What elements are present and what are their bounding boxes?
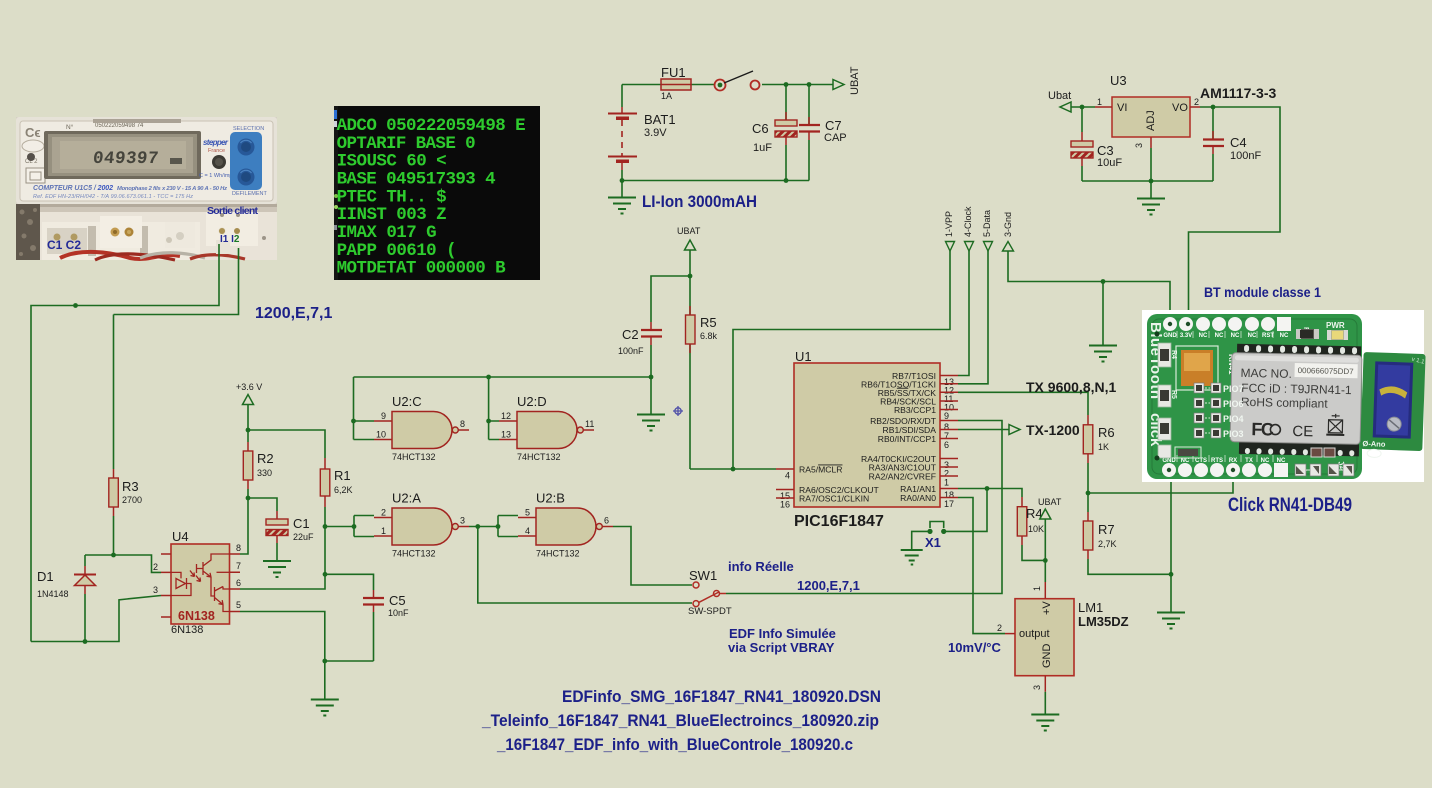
svg-text:GND: GND (1162, 458, 1176, 464)
resistor R3 2700 (109, 315, 142, 556)
svg-text:U2:C: U2:C (392, 394, 422, 409)
power terminal Ubat (left arrow) (1048, 90, 1095, 112)
svg-text:2,7K: 2,7K (1098, 539, 1117, 549)
svg-text:1uF: 1uF (753, 142, 772, 154)
svg-text:3: 3 (1134, 143, 1144, 148)
svg-text:11: 11 (585, 419, 594, 429)
ground under X1 (901, 550, 923, 565)
svg-text:RA5/MCLR: RA5/MCLR (799, 465, 842, 475)
svg-text:NC: NC (1261, 458, 1270, 464)
svg-text:NC: NC (1280, 333, 1289, 339)
svg-text:NC: NC (1181, 458, 1190, 464)
wire R1 node down to U4 pin6 and C5 (240, 527, 325, 590)
svg-text:MOTDETAT 000000 B: MOTDETAT 000000 B (337, 259, 506, 279)
svg-text:1: 1 (381, 526, 386, 536)
svg-text:6,2K: 6,2K (334, 485, 353, 495)
svg-text:R7: R7 (1098, 522, 1115, 537)
ground under module GND (1157, 613, 1185, 629)
fuse FU1 (661, 65, 691, 101)
wire D1 bottom rail to U4 pin3 (31, 596, 161, 642)
wire pin8 to SW1 common (726, 421, 1002, 594)
capacitor C5 10nF (325, 574, 409, 661)
wire battery bottom rail (622, 180, 809, 182)
ground under C1 (263, 561, 291, 577)
svg-text:1200,E,7,1: 1200,E,7,1 (255, 305, 333, 322)
svg-text:U3: U3 (1110, 73, 1127, 88)
svg-text:2: 2 (381, 508, 386, 518)
svg-text:GND: GND (1041, 644, 1053, 669)
junction dot C5 bottom (322, 659, 327, 664)
svg-text:6.8k: 6.8k (700, 331, 718, 341)
svg-text:1200,E,7,1: 1200,E,7,1 (797, 578, 860, 593)
svg-text:UBAT: UBAT (849, 66, 861, 95)
programming header terminal 1-VPP (944, 211, 955, 251)
svg-text:Ø-Ano: Ø-Ano (1362, 439, 1386, 449)
svg-text:U2:B: U2:B (536, 491, 565, 506)
svg-text:1A: 1A (661, 91, 672, 101)
junction dots R5/C2 (649, 274, 693, 380)
svg-text:1: 1 (1097, 97, 1102, 107)
resistor R5 6.8k (686, 276, 718, 469)
capacitor C2 100nF (618, 276, 690, 377)
svg-text:10mV/°C: 10mV/°C (948, 640, 1002, 655)
svg-text:CE: CE (1292, 423, 1313, 440)
svg-text:N°: N° (66, 123, 74, 131)
junction dots U2 outputs (475, 524, 500, 529)
capacitor C3 10uF (1071, 107, 1122, 181)
svg-text:17: 17 (944, 499, 954, 509)
svg-text:stepper: stepper (203, 138, 229, 147)
wire R6 bottom to module RX (1088, 481, 1233, 493)
svg-text:4: 4 (785, 471, 790, 481)
svg-text:COMPTEUR U1C5 / 2002: COMPTEUR U1C5 / 2002 (33, 185, 113, 192)
svg-text:output: output (1019, 628, 1050, 640)
svg-text:SELECTION: SELECTION (233, 126, 264, 132)
svg-text:R5: R5 (1170, 390, 1177, 399)
svg-text:SW-SPDT: SW-SPDT (688, 606, 732, 617)
microcontroller U1 PIC16F1847 (776, 349, 958, 530)
svg-text:TX-1200: TX-1200 (1026, 422, 1080, 438)
svg-text:LM35DZ: LM35DZ (1078, 614, 1129, 629)
svg-text:BT module classe 1: BT module classe 1 (1204, 284, 1321, 300)
wire pin17 to LM1 output (958, 498, 1005, 634)
wire pin18 to R4 top (958, 489, 1022, 498)
svg-text:R2: R2 (257, 451, 274, 466)
svg-text:74HCT132: 74HCT132 (517, 452, 561, 462)
svg-text:8: 8 (460, 419, 465, 429)
svg-text:Ubat: Ubat (1048, 90, 1071, 102)
svg-text:VO: VO (1172, 102, 1188, 114)
svg-text:100nF: 100nF (618, 346, 644, 356)
svg-text:CTS: CTS (1195, 458, 1207, 464)
ground under C2 (637, 377, 665, 431)
optocoupler U4 6N138 (153, 529, 241, 636)
svg-text:3.3V: 3.3V (1180, 333, 1192, 339)
wire U2:A out down to SW1 lower throw (478, 527, 692, 604)
wire meter I2 to R3 (114, 260, 239, 315)
junction dot pin18 net (985, 486, 990, 491)
temperature sensor LM1 LM35DZ (997, 582, 1129, 692)
ground under U3 (1137, 181, 1165, 215)
regulator U3 AM1117-3-3 (1095, 73, 1276, 148)
svg-text:74HCT132: 74HCT132 (392, 452, 436, 462)
svg-text:UBAT: UBAT (1038, 497, 1062, 507)
svg-text:via Script VBRAY: via Script VBRAY (728, 640, 835, 655)
svg-text:Sortie client: Sortie client (207, 205, 259, 217)
svg-text:info Réelle: info Réelle (728, 559, 794, 574)
svg-text:100nF: 100nF (1230, 150, 1261, 162)
svg-text:NC: NC (1248, 333, 1257, 339)
origin marker (673, 406, 683, 416)
svg-text:UBAT: UBAT (677, 226, 701, 236)
svg-text:000666075DD7: 000666075DD7 (1298, 366, 1355, 376)
svg-text:RB0/INT/CCP1: RB0/INT/CCP1 (878, 434, 936, 444)
svg-text:PWR: PWR (1326, 321, 1345, 330)
svg-text:1: 1 (944, 478, 949, 488)
NAND gate U2:D (499, 394, 594, 462)
svg-text:NC: NC (1199, 333, 1208, 339)
svg-text:RST: RST (1262, 333, 1274, 339)
svg-text:3: 3 (153, 585, 158, 595)
power terminal UBAT (right arrow) (833, 66, 861, 95)
power terminal UBAT (up arrow) above R5 (677, 226, 701, 276)
wire 1-VPP to pin4 net (733, 251, 950, 469)
programming header terminal 4-Clock (963, 206, 974, 251)
resistor R7 2,7K (1083, 493, 1171, 574)
svg-text:3: 3 (460, 516, 465, 526)
svg-text:5: 5 (236, 600, 241, 610)
wire 4-Clock to pin13 (958, 251, 969, 376)
resistor R6 1K (1083, 415, 1114, 493)
svg-text:LI-Ion 3000mAH: LI-Ion 3000mAH (642, 193, 757, 211)
svg-text:9: 9 (381, 411, 386, 421)
svg-text:SW1: SW1 (689, 568, 717, 583)
svg-text:2: 2 (1194, 97, 1199, 107)
svg-text:TX 9600,8,N,1: TX 9600,8,N,1 (1026, 379, 1116, 395)
svg-text:R1: R1 (334, 468, 351, 483)
svg-text:PIC16F1847: PIC16F1847 (794, 513, 884, 530)
svg-text:_Teleinfo_16F1847_RN41_BlueEle: _Teleinfo_16F1847_RN41_BlueElectroincs_1… (481, 711, 879, 730)
svg-text:VI: VI (1117, 102, 1127, 114)
wire meter I1 to bottom rail (31, 260, 219, 642)
capacitor C7 CAP (799, 85, 847, 181)
svg-text:D1: D1 (37, 569, 54, 584)
svg-text:EDF Info Simulée: EDF Info Simulée (729, 626, 836, 641)
junction dots U3 (1080, 105, 1216, 184)
svg-text:Click RN41-DB49: Click RN41-DB49 (1228, 495, 1352, 516)
svg-text:C = 1 Wh/imp: C = 1 Wh/imp (199, 173, 232, 179)
svg-text:U2:A: U2:A (392, 491, 421, 506)
svg-text:6: 6 (236, 578, 241, 588)
svg-text:BAT1: BAT1 (644, 112, 676, 127)
svg-text:PIO6: PIO6 (1223, 399, 1244, 409)
svg-text:DEFILEMENT: DEFILEMENT (232, 191, 267, 197)
svg-text:3: 3 (1032, 685, 1042, 690)
svg-text:8: 8 (236, 543, 241, 553)
svg-text:5: 5 (525, 508, 530, 518)
svg-text:RA2/AN2/CVREF: RA2/AN2/CVREF (869, 472, 936, 482)
wire R3 node to D1 and U4 pin2 (85, 555, 161, 572)
svg-text:2700: 2700 (122, 495, 142, 505)
svg-text:5-Data: 5-Data (982, 210, 992, 237)
svg-text:7: 7 (236, 561, 241, 571)
svg-text:3.9V: 3.9V (644, 127, 667, 139)
svg-text:1-VPP: 1-VPP (944, 211, 954, 237)
wire R1 bottom to U2:A inputs (325, 516, 374, 537)
svg-text:13: 13 (501, 430, 511, 440)
wire U2:A out to U2:B inputs (469, 516, 518, 537)
svg-text:GND: GND (1163, 333, 1177, 339)
capacitor C1 22uF (248, 498, 314, 561)
svg-text:10nF: 10nF (388, 608, 409, 618)
svg-text:1K: 1K (1098, 442, 1109, 452)
wire pin7 to TX-1200 terminal (958, 429, 1009, 431)
diode D1 1N4148 (37, 555, 96, 642)
svg-text:22uF: 22uF (293, 532, 314, 542)
junction dots R6/R7 (1086, 491, 1174, 577)
battery BAT1 3.9V (608, 85, 676, 181)
wire U3 ground rail (1082, 148, 1213, 181)
svg-text:+V: +V (1041, 601, 1053, 615)
resistor R1 6,2K (320, 458, 352, 527)
svg-text:6: 6 (604, 516, 609, 526)
svg-text:10: 10 (376, 430, 386, 440)
svg-text:4: 4 (525, 526, 530, 536)
svg-text:MAC NO.: MAC NO. (1240, 366, 1292, 381)
svg-text:RA0/AN0: RA0/AN0 (900, 493, 936, 503)
junction dot R4/UBAT/LM1 (1043, 558, 1048, 563)
svg-text:2: 2 (997, 623, 1002, 633)
svg-text:Ref. EDF HN-23/RH/042 - T/A 99: Ref. EDF HN-23/RH/042 - T/A 99.06.673.06… (33, 194, 193, 200)
terminal TX-1200 (right arrow) (1009, 422, 1080, 438)
wire 5-Data to pin12 (958, 251, 988, 384)
svg-text:9: 9 (944, 411, 949, 421)
svg-text:R5: R5 (700, 315, 717, 330)
svg-text:10uF: 10uF (1097, 157, 1122, 169)
jumper X1 (912, 522, 947, 551)
svg-text:PIO4: PIO4 (1223, 414, 1244, 424)
programming header terminal 5-Data (982, 210, 993, 251)
svg-text:2: 2 (153, 562, 158, 572)
programming header terminal 3-Gnd (1003, 212, 1014, 251)
svg-text:PIO3: PIO3 (1223, 429, 1244, 439)
svg-text:France: France (208, 148, 225, 154)
svg-text:R3: R3 (122, 479, 139, 494)
svg-text:Monophase 2 fils x 230 V - 15: Monophase 2 fils x 230 V - 15 A 90 A - 5… (117, 186, 227, 192)
NAND gate U2:B (518, 491, 613, 559)
svg-text:+3.6 V: +3.6 V (236, 382, 262, 392)
switch on battery line (715, 71, 760, 91)
ground under C5 (311, 700, 339, 716)
svg-text:C1 C2: C1 C2 (47, 238, 81, 252)
wire pin18 junction down to X1 (946, 489, 987, 532)
svg-text:RX: RX (1229, 458, 1237, 464)
teleinfo terminal screen (334, 106, 540, 280)
wire U2:B out to SW1 upper throw (613, 527, 692, 586)
ground under LM1 (1031, 692, 1059, 731)
svg-text:6N138: 6N138 (178, 609, 215, 623)
svg-text:330: 330 (257, 468, 272, 478)
wire module GND pad down to ground (1170, 481, 1172, 612)
photo: BluetoothClick RN41 module (1142, 310, 1426, 482)
svg-text:Cϵ: Cϵ (25, 125, 41, 140)
svg-text:050222059498 74: 050222059498 74 (95, 123, 144, 129)
svg-text:C4: C4 (1230, 135, 1247, 150)
resistor R2 330 (243, 442, 273, 498)
NAND gate U2:C (374, 394, 469, 462)
photo: EDF energy meter (16, 117, 277, 260)
svg-text:NC: NC (1277, 458, 1286, 464)
svg-text:RTS: RTS (1211, 458, 1223, 464)
wire U4 pin5 to ground node (240, 612, 374, 700)
ground on 3-Gnd net (1089, 282, 1117, 362)
svg-text:3-Gnd: 3-Gnd (1003, 212, 1013, 237)
junction dots D1/R3 nets (73, 303, 116, 644)
svg-text:CAP: CAP (824, 132, 847, 144)
switch SW1 SW-SPDT (688, 568, 732, 617)
resistor R4 10K (1017, 497, 1045, 560)
svg-text:12: 12 (501, 411, 511, 421)
svg-text:C2: C2 (622, 327, 639, 342)
svg-text:EDFinfo_SMG_16F1847_RN41_18092: EDFinfo_SMG_16F1847_RN41_180920.DSN (562, 687, 881, 706)
svg-text:PIO7: PIO7 (1223, 384, 1244, 394)
svg-text:1N4148: 1N4148 (37, 589, 69, 599)
wire U2:D input short (489, 377, 499, 440)
wire gate-inputs rail y377 (354, 376, 652, 378)
capacitor C4 100nF (1203, 107, 1261, 181)
svg-text:4-Clock: 4-Clock (963, 206, 973, 237)
svg-text:FU1: FU1 (661, 65, 686, 80)
svg-text:LM1: LM1 (1078, 600, 1103, 615)
junction dots battery (620, 82, 812, 183)
wire +3.6V node to R1 (248, 430, 325, 458)
svg-text:U2:D: U2:D (517, 394, 547, 409)
power terminal +3.6V (236, 382, 262, 442)
wire UBAT node to LM1 +V (1044, 560, 1046, 582)
svg-text:U1: U1 (795, 349, 812, 364)
svg-text:RA7/OSC1/CLKIN: RA7/OSC1/CLKIN (799, 494, 869, 504)
svg-text:_16F1847_EDF_info_with_BlueCon: _16F1847_EDF_info_with_BlueControle_1809… (496, 735, 853, 754)
power terminal UBAT above LM1 (1038, 497, 1062, 560)
svg-text:R4: R4 (1170, 350, 1177, 359)
svg-text:16: 16 (780, 500, 790, 510)
wire battery top rail (622, 84, 833, 86)
wire pin11 to R6 / TX 9600 net (958, 392, 1088, 415)
svg-text:74HCT132: 74HCT132 (392, 549, 436, 559)
svg-text:C1: C1 (293, 516, 310, 531)
svg-text:10K: 10K (1028, 524, 1044, 534)
svg-text:RoHS compliant: RoHS compliant (1241, 395, 1329, 411)
svg-text:NC: NC (1231, 333, 1240, 339)
wire 3-Gnd to module GND (1008, 251, 1170, 313)
svg-text:6N138: 6N138 (171, 624, 203, 636)
svg-text:1: 1 (1032, 586, 1042, 591)
junction dots R1/R2 nodes (246, 428, 357, 577)
svg-text:R6: R6 (1098, 425, 1115, 440)
wire U3 output to BT module 3.3V (1189, 107, 1281, 313)
capacitor C6 1uF (752, 85, 797, 181)
svg-text:74HCT132: 74HCT132 (536, 549, 580, 559)
svg-text:U4: U4 (172, 529, 189, 544)
svg-text:AM1117-3-3: AM1117-3-3 (1200, 85, 1276, 101)
svg-text:X1: X1 (925, 535, 941, 550)
NAND gate U2:A (374, 491, 469, 559)
wire U2:C input short (354, 377, 375, 440)
svg-text:6: 6 (944, 440, 949, 450)
svg-text:RB3/CCP1: RB3/CCP1 (894, 405, 936, 415)
svg-text:ADJ: ADJ (1145, 110, 1157, 131)
svg-text:049397: 049397 (92, 149, 160, 169)
wire R5 bottom to pin4 (690, 468, 733, 470)
svg-text:C3: C3 (1097, 143, 1114, 158)
svg-text:C5: C5 (389, 593, 406, 608)
svg-text:C7: C7 (825, 118, 842, 133)
junction dots VPP/Gnd nets (731, 279, 1106, 471)
svg-text:NC: NC (1215, 333, 1224, 339)
ground under BAT1 (608, 181, 636, 214)
svg-text:I1 I2: I1 I2 (220, 234, 240, 245)
svg-text:C6: C6 (752, 121, 769, 136)
svg-text:TX: TX (1245, 458, 1253, 464)
wire R2 bottom to U4 pin8 (240, 498, 248, 554)
junction dots gate inputs (351, 375, 491, 424)
